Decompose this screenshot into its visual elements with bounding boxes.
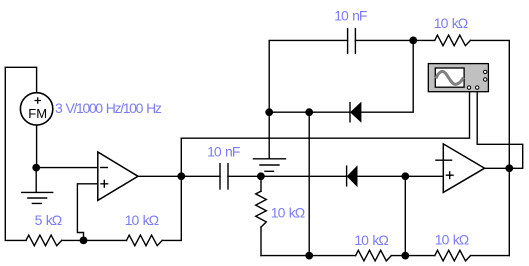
svg-text:5 kΩ: 5 kΩ xyxy=(35,212,62,228)
svg-text:FM: FM xyxy=(28,106,47,121)
svg-text:10 kΩ: 10 kΩ xyxy=(271,205,305,221)
svg-text:10 kΩ: 10 kΩ xyxy=(435,231,469,247)
svg-text:10 kΩ: 10 kΩ xyxy=(354,232,388,248)
svg-text:10 nF: 10 nF xyxy=(334,7,367,23)
svg-text:10 nF: 10 nF xyxy=(207,143,240,159)
svg-text:10 kΩ: 10 kΩ xyxy=(125,212,159,228)
svg-text:10 kΩ: 10 kΩ xyxy=(434,15,468,31)
svg-text:3 V/1000 Hz/100 Hz: 3 V/1000 Hz/100 Hz xyxy=(55,100,162,116)
